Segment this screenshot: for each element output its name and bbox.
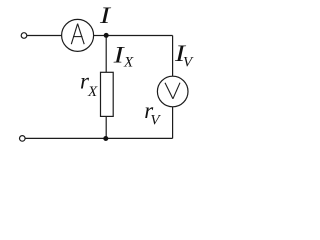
- ammeter U1 circle: [62, 19, 94, 51]
- voltmeter U2 letter V: [165, 83, 180, 99]
- ammeter U1 letter A: [71, 24, 84, 45]
- svg-text:I: I: [99, 3, 112, 28]
- wire: bottom rail: [25, 137, 172, 139]
- wire: node A down to resistor top: [105, 36, 107, 73]
- node B junction dot: [103, 136, 108, 141]
- node A junction dot: [104, 33, 109, 38]
- resistor rX body: [101, 72, 114, 116]
- wire: voltmeter bottom to bottom-right corner: [172, 107, 174, 139]
- svg-text:X: X: [123, 54, 134, 70]
- terminal T2 (bottom-left input): [20, 136, 26, 142]
- wire: right branch down to voltmeter: [172, 36, 174, 77]
- wire: top terminal to ammeter: [27, 35, 62, 37]
- wire: node A to top-right corner: [106, 35, 172, 37]
- terminal T1 (top-left input): [21, 33, 27, 39]
- wire: ammeter to node A: [94, 35, 107, 37]
- wire: resistor bottom to node B: [105, 116, 107, 138]
- voltmeter U2 circle: [157, 76, 188, 107]
- svg-text:X: X: [87, 84, 98, 100]
